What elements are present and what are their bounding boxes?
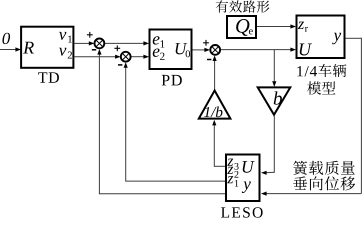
wire gain b output down and left into LESO U input [273, 116, 275, 173]
label Qe [236, 19, 249, 36]
wire input 0 into TD [0, 49, 17, 51]
wire z1 from LESO left and up into J1 minus input [99, 193, 225, 195]
block 1/4 vehicle model [297, 16, 345, 59]
block TD tracking differentiator [21, 27, 73, 68]
label v1 output of TD [59, 32, 66, 40]
summing junction J3 (U0 - z3/b) [210, 45, 220, 55]
label zr input [298, 22, 304, 29]
label b [274, 91, 282, 104]
label R in TD [23, 42, 34, 54]
label z1 output [227, 176, 233, 183]
wire U0 from PD to summing junction J3 [193, 49, 207, 51]
label y input of LESO [242, 181, 251, 192]
summing junction J1 (v1 - z1) [95, 39, 105, 49]
label e2 input of PD [153, 48, 160, 56]
label U0 output of PD [176, 43, 188, 54]
block PD controller [150, 30, 192, 70]
block label LESO [221, 207, 263, 217]
wire e1 from J1 to PD [105, 42, 145, 44]
wire v2 from TD to summing junction J2 [75, 56, 117, 58]
label 1/b [204, 106, 222, 117]
block Qe effective road profile source [227, 16, 256, 38]
label z2 output [227, 167, 233, 174]
node label: vertical displacement (垂向位移) [293, 176, 355, 190]
block label 1/4 vehicle model (1/4车辆模型) [297, 66, 317, 76]
block label PD [162, 75, 182, 86]
gain 1/b (triangle pointing up) [199, 91, 231, 119]
label U input [300, 44, 312, 56]
wire v1 from TD to summing junction J1 [75, 42, 91, 44]
wire e2 from J2 to PD [130, 56, 144, 58]
node input label 0 [2, 33, 10, 44]
wire U from J3 to vehicle model [220, 49, 292, 51]
block LESO linear extended state observer [226, 155, 260, 202]
wire z2 from LESO left and up into J2 minus input [126, 180, 225, 182]
label U input of LESO [243, 161, 255, 173]
wire Qe output to vehicle model z_r input [257, 26, 292, 28]
block label TD [38, 72, 59, 82]
label e1 input of PD [153, 36, 160, 44]
wire branch of U down into gain b [273, 50, 275, 83]
summing junction J2 (v2 - z2) [121, 52, 131, 62]
wire z3 from LESO up into gain 1/b [214, 165, 225, 167]
gain b (triangle pointing down) [258, 87, 291, 114]
node label: sprung mass (簧载质量) [293, 161, 355, 175]
label y output [332, 33, 341, 44]
node label: effective road profile (有效路形) [216, 0, 270, 12]
label v2 output of TD [59, 48, 66, 56]
wire y output feedback right and down into LESO y input [346, 37, 362, 39]
wire 1/b output up into J3 minus input [214, 59, 216, 91]
label z3 output [227, 159, 233, 166]
